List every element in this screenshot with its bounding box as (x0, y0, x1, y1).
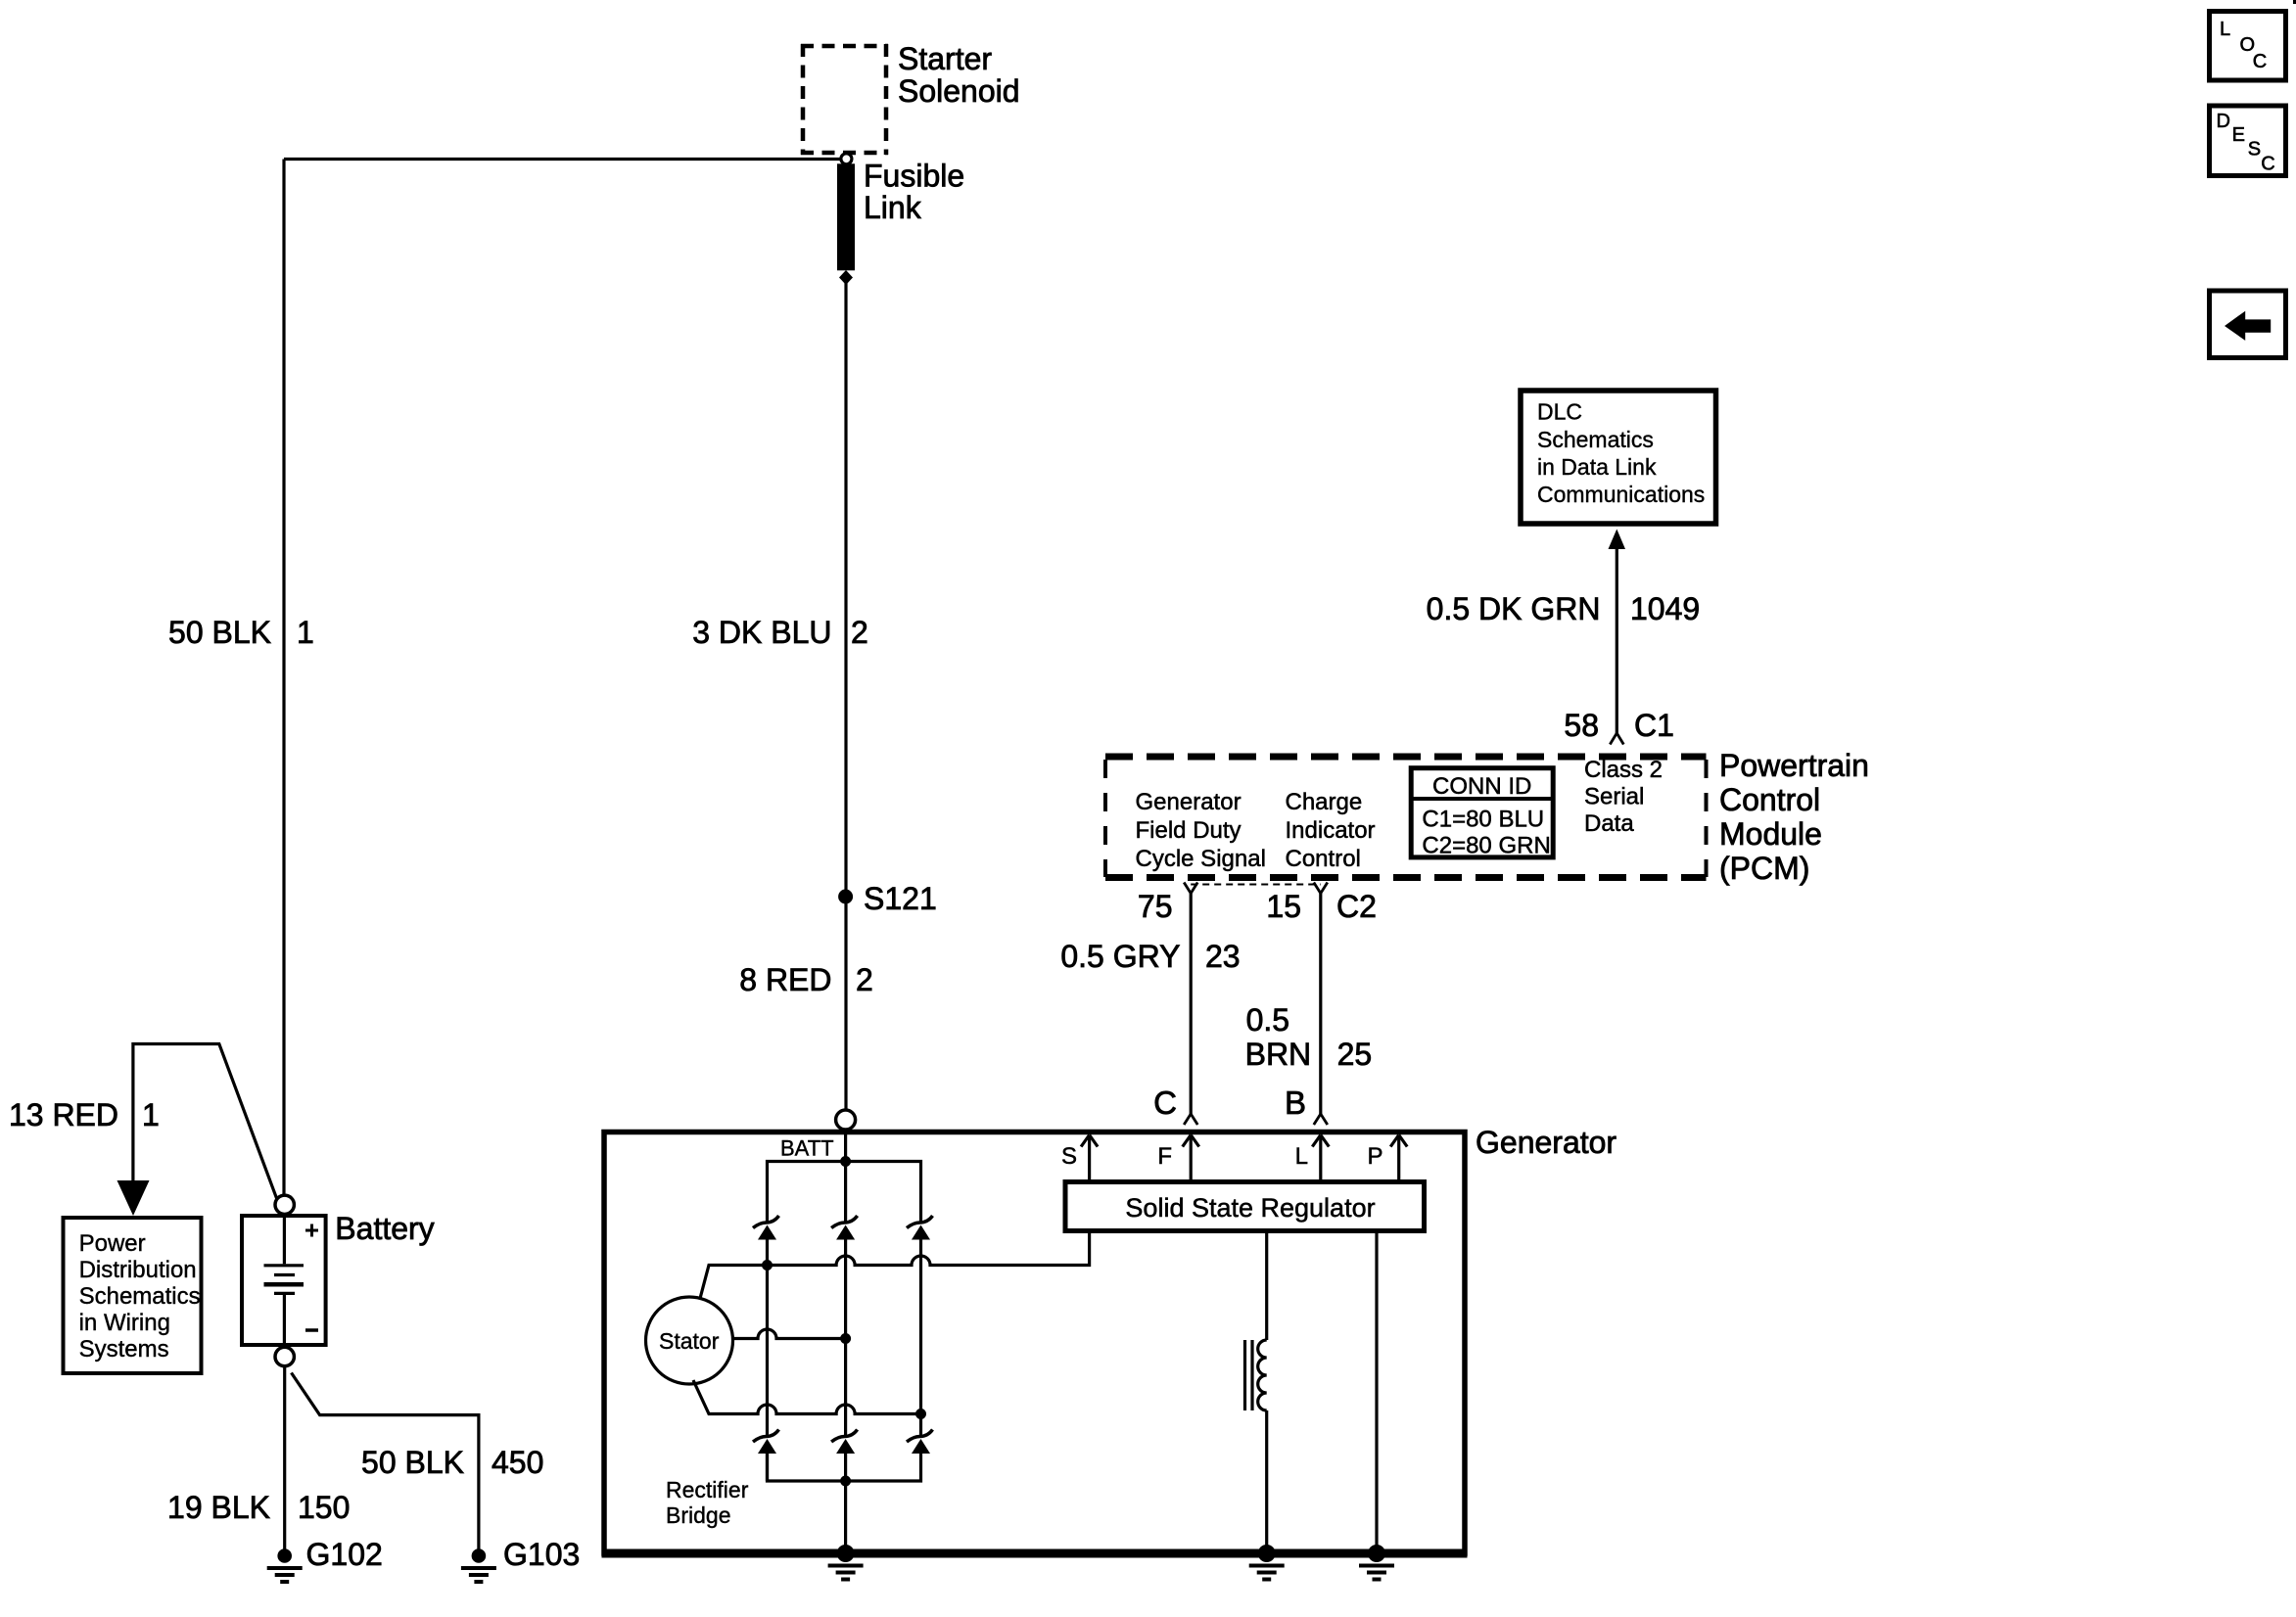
svg-text:DLC: DLC (1537, 399, 1582, 425)
svg-text:50 BLK: 50 BLK (168, 615, 271, 650)
svg-text:C1=80 BLU: C1=80 BLU (1422, 807, 1544, 833)
svg-text:Link: Link (864, 190, 922, 225)
svg-text:Generator: Generator (1136, 789, 1242, 815)
svg-text:F: F (1157, 1143, 1172, 1170)
svg-text:Serial: Serial (1584, 784, 1644, 810)
junction dot BATT bus (840, 1156, 851, 1167)
ground G103 (461, 1548, 496, 1582)
svg-text:Control: Control (1719, 782, 1820, 817)
svg-text:L: L (1295, 1143, 1308, 1170)
svg-text:in Data Link: in Data Link (1537, 454, 1657, 480)
connector fork pin 15 (1314, 883, 1328, 894)
pin arrow F (1190, 1135, 1193, 1182)
svg-text:15: 15 (1266, 889, 1301, 924)
svg-text:B: B (1285, 1085, 1306, 1121)
svg-text:Control: Control (1286, 846, 1361, 872)
svg-text:0.5: 0.5 (1246, 1002, 1289, 1038)
svg-text:Generator: Generator (1476, 1125, 1617, 1160)
wire: right rectifier leg (919, 1240, 922, 1436)
wire: stator phase A to regulator (mid bus) (700, 1231, 1090, 1299)
battery minus sign (305, 1328, 318, 1332)
wire: BATT stud into rectifier (844, 1130, 847, 1222)
svg-text:Rectifier: Rectifier (666, 1477, 749, 1502)
terminal circle: generator BATT stud (836, 1110, 856, 1130)
svg-text:50 BLK: 50 BLK (361, 1445, 464, 1480)
wire: regulator P leg to ground (1375, 1231, 1378, 1554)
svg-text:Field Duty: Field Duty (1136, 817, 1242, 844)
svg-text:Schematics: Schematics (1537, 427, 1654, 452)
svg-text:Solid State Regulator: Solid State Regulator (1125, 1193, 1375, 1223)
svg-text:Class 2: Class 2 (1584, 757, 1663, 783)
ground generator P (1359, 1545, 1394, 1580)
arrowhead to DLC (1609, 530, 1626, 550)
svg-text:Bridge: Bridge (666, 1502, 730, 1528)
svg-text:75: 75 (1138, 889, 1173, 924)
diode rectifier top 3 (907, 1216, 933, 1240)
starter solenoid dashed box (801, 44, 888, 155)
svg-text:C1: C1 (1634, 708, 1674, 743)
generator box (604, 1132, 1465, 1554)
DESC icon box (2210, 106, 2286, 176)
splice S121 (838, 890, 853, 904)
PCM dashed box (1105, 757, 1707, 878)
pin arrow S (1088, 1135, 1091, 1182)
svg-text:L: L (2220, 19, 2230, 40)
battery box (242, 1216, 326, 1345)
diode rectifier top 2 (831, 1216, 858, 1240)
terminal circle: starter solenoid stud (841, 154, 852, 164)
svg-text:C: C (2253, 51, 2267, 72)
connector fork pin 75 (1184, 883, 1197, 894)
svg-text:25: 25 (1337, 1037, 1373, 1072)
wire: 0.5 DK GRN 1049 class 2 serial data (1616, 548, 1618, 733)
svg-text:P: P (1367, 1143, 1382, 1170)
splice diamond below fusible link (839, 270, 853, 285)
svg-text:Module: Module (1719, 816, 1822, 852)
junction dot bottom bus (840, 1476, 851, 1487)
svg-text:C: C (2261, 153, 2274, 174)
svg-text:S121: S121 (864, 881, 937, 916)
svg-text:BATT: BATT (780, 1136, 834, 1161)
wire: left rectifier leg mid (766, 1240, 769, 1436)
svg-text:0.5 GRY: 0.5 GRY (1060, 939, 1180, 974)
wire: battery positive feed horizontal top (284, 158, 841, 161)
terminal circle: battery positive (275, 1195, 294, 1214)
diode rectifier bottom 3 (907, 1430, 933, 1455)
wire: left rectifier leg bottom (766, 1454, 769, 1481)
rectifier top bus (768, 1162, 921, 1223)
svg-text:(PCM): (PCM) (1719, 851, 1809, 886)
junction dot phase C (915, 1409, 926, 1419)
svg-text:E: E (2232, 124, 2245, 146)
DLC schematics box (1521, 391, 1716, 524)
svg-text:C: C (1153, 1085, 1177, 1121)
battery plate long 1 (264, 1264, 305, 1267)
svg-text:G103: G103 (503, 1537, 580, 1572)
svg-text:Charge: Charge (1286, 789, 1363, 815)
svg-text:C2: C2 (1336, 889, 1377, 924)
stator circle (646, 1297, 733, 1384)
svg-text:Fusible: Fusible (864, 159, 964, 194)
svg-text:Stator: Stator (659, 1328, 720, 1354)
junction dot phase B (840, 1333, 851, 1344)
inductor core bars (1243, 1340, 1246, 1410)
arrowhead to power distribution (117, 1180, 150, 1216)
battery internal wire top (283, 1218, 286, 1264)
svg-text:BRN: BRN (1245, 1037, 1312, 1072)
svg-text:1049: 1049 (1630, 591, 1700, 626)
wire: 0.5 GRY 23 field duty cycle (1190, 894, 1193, 1114)
svg-text:8 RED: 8 RED (739, 962, 831, 997)
ground G102 (267, 1548, 303, 1582)
svg-text:1: 1 (142, 1097, 160, 1132)
wire: stator phase C (lower) (693, 1380, 921, 1414)
svg-text:3 DK BLU: 3 DK BLU (692, 615, 831, 650)
svg-text:Starter: Starter (898, 41, 992, 76)
svg-text:Distribution: Distribution (79, 1257, 197, 1283)
wire: field coil to ground (1265, 1410, 1268, 1553)
terminal circle: battery negative (275, 1347, 294, 1365)
svg-text:Communications: Communications (1537, 482, 1705, 507)
svg-text:G102: G102 (306, 1537, 383, 1572)
svg-text:2: 2 (856, 962, 873, 997)
wire: 50 BLK 450 to G103 (292, 1373, 479, 1550)
svg-text:13 RED: 13 RED (9, 1097, 118, 1132)
svg-text:150: 150 (298, 1490, 350, 1525)
diode rectifier bottom 1 (753, 1430, 779, 1455)
battery plate short 1 (274, 1273, 295, 1276)
battery plus sign (305, 1224, 318, 1237)
back arrow (2225, 311, 2271, 341)
svg-text:0.5 DK GRN: 0.5 DK GRN (1427, 591, 1601, 626)
wire: stator phase B (middle) (733, 1329, 846, 1339)
svg-text:2: 2 (851, 615, 868, 650)
wire: 8 RED circuit 2 (844, 897, 847, 1110)
pin arrow P (1397, 1135, 1400, 1182)
wire: 50 BLK circuit 1 vertical (282, 160, 285, 1196)
svg-text:58: 58 (1564, 708, 1599, 743)
connector C1 pin 58 fork (1610, 733, 1623, 745)
svg-text:CONN ID: CONN ID (1432, 773, 1531, 800)
ground generator field (1249, 1545, 1285, 1580)
svg-text:D: D (2217, 111, 2230, 132)
svg-text:450: 450 (492, 1445, 543, 1480)
ground generator rectifier (828, 1545, 864, 1580)
svg-text:1: 1 (297, 615, 314, 650)
junction dot mid bus left leg (762, 1260, 773, 1270)
battery plate short 2 (274, 1292, 295, 1295)
wire: 19 BLK 150 to G102 (283, 1366, 286, 1549)
power distribution box (64, 1218, 202, 1373)
wire: regulator to field coil (1265, 1231, 1268, 1341)
wire: middle rectifier leg (844, 1240, 847, 1436)
LOC icon box (2210, 12, 2286, 81)
svg-text:19 BLK: 19 BLK (167, 1490, 270, 1525)
diode rectifier top 1 (753, 1216, 779, 1240)
connector fork C (1184, 1114, 1197, 1125)
fusible link (837, 163, 855, 270)
wire: 13 RED 1 to power distribution (133, 1044, 277, 1200)
svg-text:Solenoid: Solenoid (898, 73, 1020, 109)
svg-text:S: S (2248, 139, 2261, 161)
battery internal wire bottom (283, 1294, 286, 1343)
svg-text:Data: Data (1584, 810, 1634, 837)
wire: 0.5 BRN 25 charge indicator (1319, 894, 1322, 1114)
inductor field coil (1258, 1340, 1267, 1410)
svg-text:S: S (1061, 1143, 1077, 1170)
svg-text:Systems: Systems (79, 1336, 169, 1363)
svg-text:Schematics: Schematics (79, 1283, 201, 1310)
svg-text:Powertrain: Powertrain (1719, 748, 1869, 783)
svg-text:C2=80 GRN: C2=80 GRN (1422, 833, 1550, 859)
rectifier bottom bus (768, 1454, 921, 1481)
wire: 3 DK BLU circuit 2 (844, 283, 847, 897)
CONN ID table (1411, 768, 1553, 857)
battery plate long 2 (264, 1282, 305, 1287)
dashed connector body C2 (1191, 884, 1321, 886)
back arrow icon box (2210, 291, 2286, 358)
svg-text:23: 23 (1205, 939, 1241, 974)
svg-text:Cycle Signal: Cycle Signal (1136, 846, 1266, 872)
solid state regulator box (1065, 1182, 1425, 1231)
pin arrow L (1319, 1135, 1322, 1182)
corner tick (2293, 0, 2296, 4)
svg-text:Indicator: Indicator (1286, 817, 1376, 844)
svg-text:Power: Power (79, 1230, 146, 1257)
diode rectifier bottom 2 (831, 1430, 858, 1455)
svg-text:Battery: Battery (335, 1211, 434, 1246)
svg-text:in Wiring: in Wiring (79, 1310, 170, 1336)
connector fork B (1314, 1114, 1328, 1125)
